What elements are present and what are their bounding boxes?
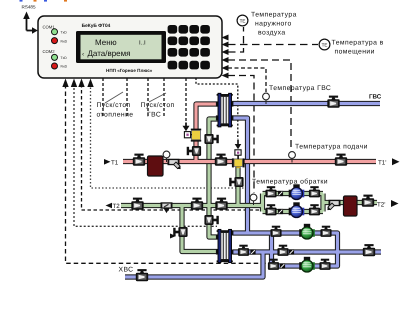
check valve top branch: [278, 191, 283, 196]
node: T1 inlet arrow: [104, 159, 111, 165]
arrowhead: bundle line 1 into controller: [62, 79, 68, 88]
arrowhead: keypad arrow 1: [222, 35, 229, 41]
svg-text:Esc: Esc: [169, 64, 175, 68]
svg-text:воздуха: воздуха: [258, 30, 286, 37]
leader line heating label: [105, 92, 123, 103]
motor valve on HX1 primary riser: [204, 134, 218, 144]
circulation pump heating 2: [289, 202, 305, 217]
sensor: supply temperature: [289, 152, 296, 163]
3-way mixing valve (yellow cross) on supply main: [232, 158, 245, 168]
svg-text:Т1': Т1': [378, 159, 386, 166]
arrowhead: keypad arrow 2: [222, 49, 229, 55]
mud tank on T2' outlet: [344, 196, 358, 216]
wire: return main T2: [121, 203, 262, 208]
wire: supply main T1: [123, 159, 376, 164]
node: T2 return outlet arrow: [106, 203, 113, 209]
svg-text:Ctr: Ctr: [203, 64, 209, 68]
heat exchanger HX1 (DHW stage 2): [216, 93, 234, 127]
heating pump loop: valve top-left: [265, 186, 276, 197]
svg-text:Температура в: Температура в: [332, 40, 384, 47]
arrowhead: keypad arrow 4: [222, 65, 229, 71]
svg-text:БеКуБ ФТ04: БеКуБ ФТ04: [82, 23, 111, 29]
strainer on return main: [161, 202, 173, 213]
filter on T1 inlet: [168, 159, 183, 171]
wire: DHW outlet pipe from HX1: [232, 101, 380, 106]
DHW loop: valve top-right: [320, 226, 331, 237]
valve bottom-left: [265, 204, 276, 215]
valve on return main 1: [131, 198, 143, 210]
svg-text:1..: 1..: [181, 64, 185, 68]
actuator box of 3-way valve: [235, 150, 241, 159]
svg-text:ТЕ: ТЕ: [240, 18, 246, 23]
sensor TE outdoor temperature: [237, 15, 248, 26]
svg-text:COM2: COM2: [43, 49, 56, 54]
LED COM2 RxD: [52, 63, 58, 69]
green pipe group: heating return: [121, 119, 377, 252]
RS485 arrow up: [23, 12, 38, 34]
check valve on DHW middle line: [289, 249, 294, 254]
svg-text:Температура подачи: Температура подачи: [295, 144, 368, 151]
wire: DHW middle line to circulation inlet: [233, 249, 381, 254]
sensor: return temperature: [250, 194, 257, 205]
svg-text:ГВС: ГВС: [369, 94, 382, 101]
valve after HX2 on DHW middle line: [238, 245, 249, 256]
valve on T2' outlet: [362, 195, 374, 207]
actuator box of DHW regulating valve: [184, 132, 192, 138]
valve on cold water inlet: [136, 269, 148, 281]
valve on return main 2: [191, 198, 203, 210]
svg-text:.: .: [205, 50, 206, 55]
valve bottom-right: [309, 204, 320, 215]
svg-text:НПП «Горное Плюс»: НПП «Горное Плюс»: [106, 68, 153, 73]
controller БеКуБ ФТ04: [38, 16, 222, 78]
valve on DHW outlet: [327, 96, 339, 108]
wire: input bundle line 4 to return sensor line: [91, 84, 251, 188]
DHW loop: valve bottom-left: [268, 259, 279, 270]
arrowhead: bundle line 2 into controller: [71, 79, 77, 88]
arrowhead: keypad arrow 3: [222, 57, 229, 63]
motor valve on HX2 bottom riser: [173, 227, 187, 237]
arrowhead: bundle line 4 into controller: [87, 79, 93, 88]
valve on supply main: [215, 154, 227, 166]
LED COM2 TxD: [52, 54, 58, 60]
wire: pump start output 3: [147, 78, 149, 117]
valve top-right: [309, 186, 320, 197]
pink pipe group: heating supply: [123, 104, 376, 162]
svg-text:^: ^: [204, 27, 206, 32]
wire: signal from return temperature sensor (long-dash riser): [228, 76, 254, 194]
svg-text:Пуск/стоп: Пуск/стоп: [141, 102, 175, 109]
wire: heating pump loop: [263, 194, 324, 212]
svg-text:RS485: RS485: [22, 5, 36, 10]
svg-text:Дата/время: Дата/время: [88, 49, 131, 58]
sensor TE room temperature: [319, 39, 330, 50]
wire: riser to HX2 bottom port: [182, 206, 218, 252]
wire: input bundle line 2 to HX2 valves: [74, 84, 217, 226]
svg-text:наружного: наружного: [255, 21, 292, 28]
motor valve on recirculation riser: [229, 177, 243, 187]
DHW loop: valve bottom-right: [319, 259, 330, 270]
arrowhead: down to DHW valve actuator: [183, 123, 190, 132]
wire: signal to TE outdoor sensor (keypad arrow 2): [228, 27, 244, 52]
wire: supply riser to HX1: [196, 104, 218, 162]
pressure gauge on T1 inlet: [163, 151, 170, 162]
svg-text:помещении: помещении: [335, 49, 375, 56]
valve on DHW middle line: [277, 245, 288, 256]
svg-text:ГВС: ГВС: [147, 112, 161, 119]
svg-text:ХВС: ХВС: [119, 267, 134, 274]
svg-text:TxD: TxD: [61, 56, 68, 60]
decorative top-edge text remnants: [20, 0, 68, 2]
heat exchanger HX2 (DHW stage 1): [216, 229, 234, 262]
svg-text:Температура обратки: Температура обратки: [252, 179, 328, 186]
circulation pump heating 1: [289, 184, 305, 199]
svg-text:Т1: Т1: [111, 159, 119, 166]
arrowhead: keypad arrow 5: [222, 73, 229, 79]
wire: return outlet to T2': [323, 200, 377, 205]
wire: cold water (XVS) pipe: [125, 252, 263, 277]
wire: signal from DHW temperature sensor: [228, 68, 266, 92]
DHW loop: valve top-left: [270, 226, 281, 237]
wire: input bundle line 1 to DHW pumps: [66, 84, 269, 263]
valve on T1 inlet: [133, 154, 145, 166]
arrowhead: end of HX2 motor valve control line: [170, 234, 176, 239]
DHW loop: check valve bottom: [280, 263, 285, 268]
wire: DHW pump loop top branch: [233, 233, 338, 266]
motor valve on supply riser: [187, 146, 201, 156]
wire: signal from supply temperature sensor: [228, 60, 291, 150]
wire: pump start output 2: [126, 78, 128, 117]
valve on supply outlet T1': [335, 154, 347, 166]
svg-text:Пуск/стоп: Пуск/стоп: [97, 102, 131, 109]
DHW circulation pump 2: [299, 257, 315, 272]
motor valve on HX2 primary riser upper: [204, 215, 218, 225]
svg-text:отопление: отопление: [97, 112, 134, 119]
arrowhead: down to 3-way valve actuator: [235, 140, 242, 150]
svg-text:RxD: RxD: [61, 65, 68, 69]
svg-text:Т2': Т2': [377, 201, 385, 208]
svg-text:Температура: Температура: [251, 12, 297, 19]
wire: pump start output 4: [163, 78, 165, 117]
svg-text:Меню: Меню: [95, 38, 117, 47]
DHW circulation pump 1: [299, 224, 315, 239]
svg-text:I..I: I..I: [139, 40, 146, 47]
valve on return main 3: [215, 198, 227, 210]
wire: pump start output 1: [102, 78, 104, 117]
mud tank on T1 inlet: [148, 156, 164, 176]
svg-text:Температура ГВС: Температура ГВС: [269, 85, 331, 92]
filter on T2' outlet: [326, 200, 341, 212]
wire: control output to DHW regulating valve: [185, 78, 187, 124]
wire: recirculation riser from 3-way valve: [235, 167, 240, 206]
wire: control output to 3-way mixing valve: [196, 78, 238, 139]
svg-text:Ent: Ent: [191, 64, 197, 68]
sensor: DHW temperature: [263, 93, 270, 104]
wire: HX1 to DHW loop riser: [232, 118, 248, 233]
arrowhead: bundle line 3 into controller: [78, 79, 84, 88]
svg-text:TxD: TxD: [61, 31, 68, 35]
valve on DHW circulation inlet: [363, 244, 375, 256]
svg-text:ТЕ: ТЕ: [322, 42, 328, 47]
LED COM1 TxD: [52, 29, 58, 35]
svg-text:←: ←: [203, 39, 207, 44]
leader line DHW label: [149, 93, 166, 102]
check valve bottom branch: [278, 209, 283, 214]
blue pipe group: DHW / cold water: [125, 104, 381, 278]
DHW regulating valve (yellow) on supply riser: [191, 129, 201, 142]
check valve after HX2: [250, 249, 255, 254]
wire: input bundle line 3 to heating pumps: [82, 84, 293, 210]
keypad: [168, 25, 210, 69]
svg-text:Т2: Т2: [113, 203, 121, 210]
wire: riser HX1 primary return: [209, 119, 218, 237]
svg-text:RxD: RxD: [61, 39, 68, 43]
LCD display: [76, 31, 166, 63]
LED COM1 RxD: [52, 38, 58, 44]
wire: signal to TE room sensor (keypad arrow 1): [228, 44, 318, 46]
svg-text:‹: ‹: [82, 51, 84, 58]
